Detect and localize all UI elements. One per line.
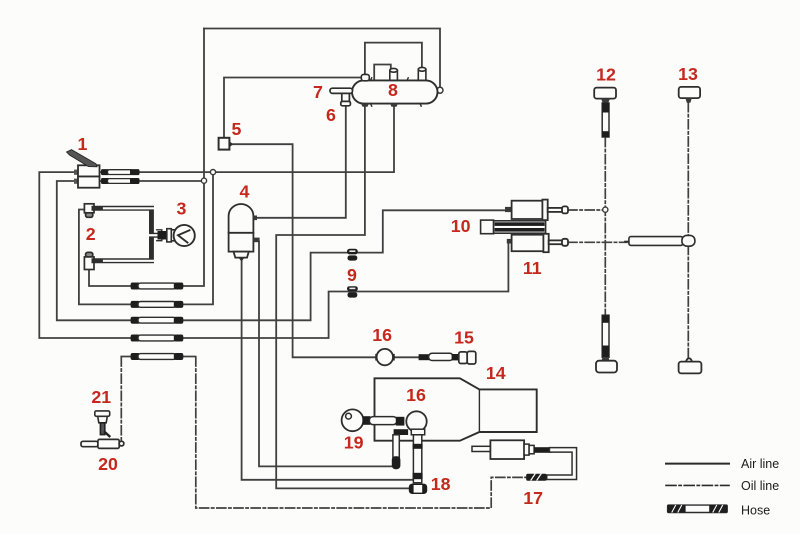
hose stub on 17 body [534, 447, 552, 453]
svg-text:14: 14 [486, 363, 506, 383]
tank 8 top-right fitting [418, 67, 426, 80]
oil line chamber 10 rod to node on column 12 [568, 209, 605, 211]
svg-text:16: 16 [406, 385, 426, 405]
legend oil line sample [666, 484, 729, 486]
svg-text:9: 9 [347, 265, 357, 285]
wire switch 5 output to valve 16 upper line [230, 144, 377, 357]
connector 9 upper [347, 249, 358, 261]
tie rod between 11 and 13 [625, 235, 695, 246]
oil line row 5 right drop along bottom to hose 17 [196, 357, 527, 508]
drain cock 20 [81, 439, 124, 448]
wire hose row 5 horizontal [121, 356, 195, 358]
breather 21 [95, 411, 110, 436]
hose on row 1 [131, 283, 184, 290]
drain cock 7 pipe [330, 88, 353, 93]
hose on valve 1 lower right line [101, 178, 140, 184]
hose 17 hatched [526, 474, 546, 481]
svg-text:7: 7 [313, 82, 323, 102]
wire vertical A down to hose row 1 and valve 2 lower fitting [89, 29, 204, 287]
svg-text:19: 19 [344, 433, 364, 453]
connector 9 lower [347, 286, 358, 297]
wheel stop 12 bottom flag [596, 357, 617, 373]
check valve 16 upper on line to 15 [375, 349, 394, 365]
svg-text:5: 5 [231, 119, 241, 139]
svg-text:2: 2 [86, 224, 96, 244]
air tank 4 [229, 204, 260, 261]
slack adjuster between 10 and 11 [481, 220, 546, 234]
wire top frame from node A to tank 8 right nipple [204, 29, 440, 88]
air horn 2 lower fitting [84, 252, 94, 269]
wire tank 4 bottom to valve 18 [242, 260, 413, 480]
svg-text:16: 16 [372, 325, 392, 345]
svg-text:1: 1 [78, 134, 88, 154]
svg-text:21: 21 [91, 387, 111, 407]
oil line column 13 upper [687, 103, 689, 237]
wire valve 16 to connector 15 [394, 356, 420, 358]
collar under valve 16 [411, 429, 424, 435]
hose on row 3 [131, 317, 184, 324]
svg-text:Air line: Air line [741, 457, 779, 471]
wire tank 8 top step [374, 65, 391, 81]
hose 12 lower tube [602, 315, 609, 357]
quick release valve 18 [409, 484, 427, 494]
muffler 14 body [375, 378, 537, 440]
svg-text:8: 8 [388, 80, 398, 100]
svg-text:4: 4 [239, 182, 249, 202]
air tank 8 [352, 80, 438, 103]
wheel stop 12 top flag [594, 88, 616, 104]
oil line column 13 lower [687, 245, 689, 358]
oil line row 5 left drop to cock 20 [120, 357, 122, 443]
connector 15 [419, 351, 476, 364]
air chamber 17 collar [524, 444, 529, 455]
hose on row 4 [131, 335, 184, 342]
wire tank 8 left fitting to switch 5 [224, 78, 364, 138]
svg-text:18: 18 [431, 474, 451, 494]
svg-text:20: 20 [98, 454, 118, 474]
wire tank 8 top loop [365, 43, 422, 75]
legend hose sample [668, 505, 728, 512]
svg-text:13: 13 [678, 64, 698, 84]
pipe from fitting 2 lower to gauge 3 [94, 239, 160, 261]
svg-text:12: 12 [596, 65, 616, 85]
tank 8 top-middle fitting [390, 68, 398, 80]
ball valve 19 [342, 409, 364, 431]
tank 8 top-left fitting [361, 74, 369, 80]
tank 8 right nipple node [437, 87, 443, 93]
wire hose row 2 from node B to valve 2 upper fitting [79, 172, 213, 304]
node A junction [201, 178, 206, 183]
svg-text:17: 17 [523, 488, 543, 508]
wire tank 4 side nub to elbow tube of valve 16 [259, 242, 392, 467]
wire valve 1 upper right port to tank 8 bottom-right [100, 103, 394, 172]
brake chamber 10 [505, 200, 568, 221]
svg-text:10: 10 [451, 216, 471, 236]
hose on valve 1 upper right line [101, 169, 140, 175]
svg-text:Hose: Hose [741, 504, 770, 518]
muffler 14 inner seam [478, 389, 480, 432]
wire tank 8 bottom-left down-left-down to ball valve 19 stem [276, 103, 409, 488]
legend air line sample [666, 463, 729, 465]
tube from 16 down to valve 18 [413, 435, 423, 483]
air chamber 17 body [490, 440, 524, 459]
check valve 16 lower [406, 411, 426, 431]
node B junction [210, 170, 215, 175]
tube from 19 to 16 [362, 416, 404, 425]
U pipe of 17 [549, 450, 574, 477]
svg-text:3: 3 [177, 199, 187, 219]
svg-text:15: 15 [454, 328, 474, 348]
wire valve 1 lower-left port via hose row 3 to connector 9 upper and chamber 10 [57, 181, 506, 320]
gauge 3 collar [167, 229, 172, 242]
air chamber 17 rod [472, 446, 491, 451]
node on column 12 [603, 207, 608, 212]
hose stub into gauge 3 [158, 231, 168, 240]
hose on row 5 [131, 353, 184, 360]
wheel stop 13 bottom flag [679, 358, 702, 373]
svg-text:11: 11 [523, 258, 542, 278]
brake chamber 11 [507, 234, 568, 252]
wire valve 1 upper-left port via hose row 4 to connector 9 lower and chamber 11 [39, 172, 508, 338]
elbow tube down to air line [392, 435, 401, 469]
svg-text:Oil line: Oil line [741, 479, 779, 493]
wheel stop 13 top flag [679, 87, 700, 103]
hand brake valve 1 [67, 150, 100, 188]
pipe from fitting 2 upper to gauge 3 [94, 208, 160, 231]
oil line chamber 11 rod to tie rod 13 [568, 241, 627, 243]
wire valve 1 lower right port to node A [100, 180, 204, 182]
drain valve 6 body [341, 93, 351, 105]
wire drain 6 down and left to tank 4 [254, 106, 346, 218]
pressure switch 5 [219, 138, 234, 150]
oil line column 12 [604, 138, 606, 316]
air horn 2 upper fitting [84, 204, 94, 218]
elbow under valve 16 [394, 429, 409, 435]
hose 12 upper tube [602, 103, 609, 137]
hose on row 2 [131, 301, 184, 308]
gauge 3 body with arrow [174, 225, 195, 246]
tank 8 bottom nubs [361, 103, 398, 106]
svg-text:6: 6 [326, 105, 336, 125]
